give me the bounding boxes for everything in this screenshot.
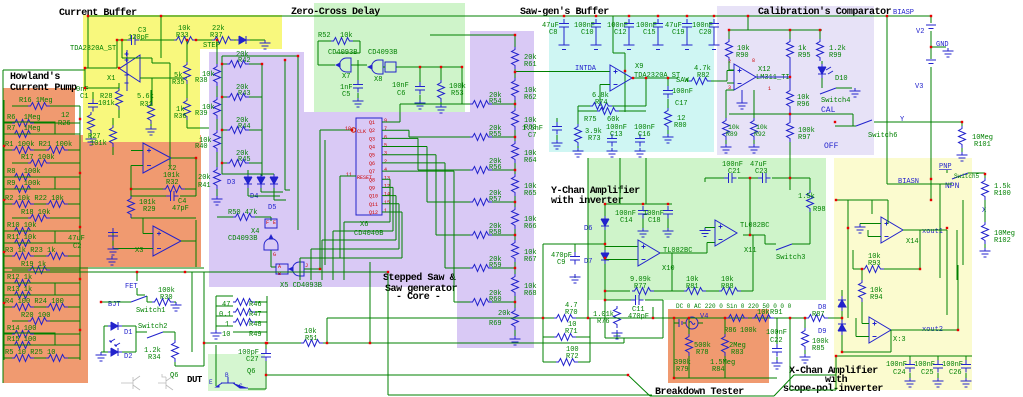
wire: comparator top rail	[729, 16, 822, 39]
svg-text:R35: R35	[172, 79, 185, 87]
capacitor C14	[638, 206, 648, 219]
svg-text:Q8: Q8	[369, 177, 375, 183]
svg-text:100nF: 100nF	[672, 88, 693, 96]
wire: GND stub	[931, 46, 946, 48]
ground: R73	[573, 148, 584, 157]
ground: X12	[737, 100, 748, 109]
wire: X14 nets	[836, 184, 963, 318]
svg-text:D10: D10	[835, 75, 848, 83]
svg-text:CD4093B: CD4093B	[328, 49, 357, 57]
svg-text:Stepped Saw &: Stepped Saw &	[383, 272, 456, 284]
svg-text:X8: X8	[374, 76, 382, 84]
ground: R89/R92	[721, 144, 732, 153]
svg-text:R55: R55	[489, 131, 502, 139]
svg-text:Current Buffer: Current Buffer	[59, 7, 137, 19]
svg-text:Q6: Q6	[170, 372, 178, 380]
capacitor C8	[559, 19, 569, 32]
svg-text:X14: X14	[906, 238, 919, 246]
resistor R30	[152, 299, 174, 306]
svg-text:101k: 101k	[90, 140, 107, 148]
resistor R50	[233, 214, 255, 221]
svg-text:R73: R73	[588, 135, 601, 143]
svg-text:LM311_TI: LM311_TI	[756, 74, 790, 82]
svg-text:10nF: 10nF	[392, 82, 409, 90]
wire: X6 Q8 feedback loop	[344, 179, 390, 280]
svg-text:C22: C22	[770, 337, 783, 345]
wire: Q6 emitter/collector nets	[216, 343, 628, 389]
resistor R101	[959, 126, 966, 148]
wire: R87 line	[828, 317, 842, 319]
svg-text:2: 2	[384, 159, 387, 165]
svg-text:R40: R40	[195, 143, 208, 151]
svg-text:TL082BC: TL082BC	[663, 247, 692, 255]
wire: R52 to X7	[318, 41, 360, 65]
resistor R40	[214, 130, 221, 152]
svg-text:4: 4	[384, 167, 387, 173]
wire: X4 out to X5	[271, 250, 276, 267]
svg-text:R88: R88	[721, 283, 734, 291]
diode D8	[838, 296, 846, 311]
wire: X10 output	[605, 243, 715, 292]
wire: X12 blue leads	[742, 61, 790, 120]
svg-text:R85: R85	[812, 345, 825, 353]
svg-text:1: 1	[768, 86, 771, 92]
LED D10	[818, 64, 826, 78]
wire: right BIASN vertical	[887, 16, 931, 184]
wire: R94	[861, 269, 863, 322]
wire: V4 loop	[576, 318, 806, 378]
svg-text:R72: R72	[566, 353, 579, 361]
op-amp X9	[610, 65, 632, 91]
op-amp X11 TL082BC	[715, 220, 737, 246]
diode D3	[244, 174, 252, 188]
svg-text:C6: C6	[397, 90, 405, 98]
svg-text:R4 100 R24 100: R4 100 R24 100	[5, 298, 64, 306]
diode on STEP line	[236, 36, 250, 44]
capacitor C3	[127, 35, 140, 45]
svg-text:13: 13	[384, 175, 390, 181]
svg-text:X:3: X:3	[893, 336, 906, 344]
capacitor C24	[905, 360, 915, 373]
resistor R64	[512, 141, 519, 163]
svg-text:100k: 100k	[740, 327, 757, 335]
svg-text:PNP: PNP	[939, 163, 952, 171]
wire: C3/R33/R37 feedback line	[117, 39, 265, 41]
svg-text:Switch2: Switch2	[138, 323, 167, 331]
resistor R26	[88, 112, 95, 134]
wire: R76/C11 box	[605, 291, 663, 338]
svg-text:DC 0 AC 220 0 Sin 0 220 50 0 0: DC 0 AC 220 0 Sin 0 220 50 0 0 0	[676, 303, 792, 310]
svg-text:Q10: Q10	[369, 194, 378, 200]
svg-text:R65: R65	[524, 190, 537, 198]
IC X6 CD4040B	[356, 118, 382, 215]
ground: R26	[86, 136, 97, 145]
wire: X1 feedback and input wires	[85, 16, 187, 166]
capacitor C23	[758, 173, 771, 183]
ground: C6	[415, 100, 426, 109]
op-amp X14	[881, 217, 903, 243]
svg-text:R58: R58	[489, 229, 502, 237]
wire: switch5 net	[931, 170, 985, 278]
resistor R78	[686, 334, 693, 356]
resistor R27	[110, 125, 117, 147]
svg-text:scope-pol-inverter: scope-pol-inverter	[783, 383, 883, 395]
wire: xchan bottom rail	[836, 356, 972, 390]
svg-text:47uF: 47uF	[68, 235, 85, 243]
svg-text:BIASN: BIASN	[898, 178, 919, 186]
svg-text:C25: C25	[921, 369, 934, 377]
ground: STEP line	[260, 40, 271, 49]
resistor R63	[512, 108, 519, 130]
svg-text:10k: 10k	[757, 309, 770, 317]
capacitor C21	[724, 173, 737, 183]
resistor R39	[214, 97, 221, 119]
svg-text:C24: C24	[893, 369, 906, 377]
resistor R62	[512, 78, 519, 100]
svg-text:X7: X7	[342, 73, 350, 81]
resistor R82	[689, 78, 711, 85]
svg-text:xout1: xout1	[922, 228, 943, 236]
svg-text:100nF: 100nF	[914, 361, 935, 369]
gate X4 CD4093B	[265, 219, 277, 228]
svg-text:R90: R90	[736, 52, 749, 60]
svg-text:C15: C15	[643, 29, 656, 37]
capacitor C13	[607, 134, 617, 147]
svg-text:C8: C8	[549, 29, 557, 37]
ground: R102	[980, 248, 991, 257]
svg-text:C16: C16	[638, 131, 651, 139]
capacitor C18	[663, 206, 673, 219]
svg-text:C2: C2	[73, 243, 81, 251]
wire: top supply bus	[88, 16, 931, 68]
svg-text:100nF: 100nF	[942, 361, 963, 369]
wire: breakdown net	[674, 318, 777, 378]
capacitor C6	[415, 82, 425, 95]
wire: X6 Q3 to ladder row	[382, 138, 462, 170]
svg-text:R20 100: R20 100	[21, 312, 50, 320]
resistor R61	[512, 47, 519, 69]
op-amp X10 TL082BC	[638, 240, 660, 266]
ground: C9	[570, 274, 581, 283]
svg-text:10k: 10k	[728, 124, 740, 131]
svg-text:R98: R98	[813, 206, 826, 214]
ground: GND	[943, 48, 954, 57]
resistor R73	[575, 124, 582, 146]
svg-text:R100: R100	[994, 190, 1011, 198]
svg-text:R91: R91	[770, 309, 783, 317]
ground: X14 input	[855, 224, 866, 233]
svg-text:10: 10	[222, 331, 230, 339]
svg-text:C13: C13	[610, 131, 623, 139]
resistor R81	[684, 288, 706, 295]
svg-text:R60: R60	[489, 296, 502, 304]
svg-text:Q9: Q9	[369, 185, 375, 191]
resistor R51	[301, 340, 323, 347]
capacitor C15	[653, 19, 663, 32]
svg-text:20k: 20k	[498, 310, 511, 318]
ground: R31	[146, 126, 157, 135]
svg-text:R93: R93	[868, 260, 881, 268]
diode D9	[838, 320, 846, 335]
resistor R88	[719, 288, 741, 295]
svg-text:V4: V4	[700, 313, 708, 321]
svg-text:100nF: 100nF	[886, 361, 907, 369]
svg-text:C12: C12	[614, 29, 627, 37]
svg-text:R94: R94	[870, 294, 883, 302]
svg-text:C20: C20	[699, 29, 712, 37]
ghost transistor outlines	[121, 374, 173, 390]
resistor R102	[982, 222, 989, 244]
capacitor C26	[961, 360, 971, 373]
wire: FET stub	[137, 272, 145, 295]
svg-text:C9: C9	[557, 259, 565, 267]
resistor R69	[512, 308, 519, 330]
svg-text:0.1: 0.1	[219, 311, 232, 319]
wire: X6 reset input	[340, 176, 356, 258]
wire: R51 line and long nets	[204, 262, 624, 343]
svg-text:Switch6: Switch6	[868, 132, 897, 140]
svg-text:R74: R74	[595, 99, 608, 107]
resistor R85	[802, 328, 809, 350]
svg-text:R71: R71	[565, 328, 578, 336]
op-amp X13	[869, 317, 891, 343]
switch Switch1	[131, 296, 147, 302]
svg-text:R26: R26	[58, 120, 71, 128]
gate X5 CD4093B	[276, 264, 288, 274]
svg-text:R51: R51	[305, 335, 318, 343]
wire: diode row	[222, 163, 286, 200]
ground: D2	[96, 352, 107, 361]
svg-text:C18: C18	[648, 217, 661, 225]
svg-text:D5: D5	[268, 204, 276, 212]
svg-text:X5 CD4093B: X5 CD4093B	[280, 282, 322, 290]
wire: mid horizontal runs	[652, 307, 654, 318]
resistor R89	[723, 118, 730, 140]
diode D7	[601, 250, 609, 264]
diode D5	[270, 174, 278, 188]
svg-text:R62: R62	[524, 94, 537, 102]
resistor R100	[982, 178, 989, 200]
svg-text:47pF: 47pF	[172, 205, 189, 213]
capacitor C5	[353, 80, 363, 93]
wire: C14/C18 rail	[588, 158, 672, 318]
resistor R28	[116, 88, 123, 110]
svg-text:R57: R57	[489, 196, 502, 204]
capacitor C22	[772, 344, 782, 357]
svg-text:5: 5	[384, 143, 387, 149]
resistor R94	[859, 280, 866, 302]
svg-text:14: 14	[384, 192, 390, 198]
svg-text:R95: R95	[798, 52, 811, 60]
svg-text:R101: R101	[974, 141, 991, 149]
svg-text:R50 47k: R50 47k	[228, 209, 257, 217]
svg-text:OFF: OFF	[824, 142, 839, 151]
wire: BJT line	[101, 296, 152, 302]
svg-text:TDA2320A_ST: TDA2320A_ST	[70, 45, 116, 53]
svg-text:Switch1: Switch1	[136, 307, 165, 315]
wire: X6 Q2 to ladder row	[382, 130, 462, 137]
wire: R93	[853, 250, 920, 269]
capacitor C4	[166, 191, 179, 201]
resistor R66	[512, 207, 519, 229]
svg-text:X9: X9	[635, 63, 643, 71]
block background: Saw-gen buffer (cyan)	[549, 17, 714, 152]
ground: C2	[108, 246, 119, 255]
svg-text:Switch3: Switch3	[776, 254, 805, 262]
svg-text:R34: R34	[148, 354, 161, 362]
svg-text:- Core -: - Core -	[396, 292, 440, 303]
wire: X6 Q4 to ladder row	[382, 147, 462, 203]
wire: D8/D9 column	[842, 290, 869, 352]
block background: Breakdown tester (orange)	[668, 309, 769, 383]
svg-text:R18 10k: R18 10k	[21, 209, 50, 217]
svg-text:C7: C7	[528, 132, 536, 140]
ground: R30	[171, 302, 182, 311]
svg-text:R102: R102	[994, 237, 1011, 245]
svg-text:D3: D3	[227, 179, 235, 187]
resistor R32	[163, 186, 185, 193]
gate X8 CD4093B	[367, 60, 383, 74]
svg-text:Q3: Q3	[369, 136, 375, 142]
svg-text:Q5: Q5	[369, 153, 375, 159]
svg-text:Q4: Q4	[369, 145, 375, 151]
svg-text:R82: R82	[697, 72, 710, 80]
capacitor C2	[108, 228, 118, 241]
svg-text:120pF: 120pF	[128, 34, 149, 42]
capacitor C9	[570, 252, 580, 265]
wire: X3 loops	[113, 218, 196, 267]
resistor R68	[512, 274, 519, 296]
svg-text:R81: R81	[686, 283, 699, 291]
svg-text:C27: C27	[246, 356, 259, 364]
svg-text:CLK: CLK	[357, 129, 366, 135]
svg-text:DUT: DUT	[187, 375, 203, 385]
resistor R91	[752, 315, 774, 322]
resistor R33	[174, 37, 196, 44]
svg-text:J: J	[305, 263, 308, 269]
svg-text:C21: C21	[728, 168, 741, 176]
wire: Howland block outline	[3, 70, 85, 383]
svg-text:7: 7	[384, 126, 387, 132]
wire: X6 Q12 feedback loop	[300, 212, 402, 280]
svg-text:Breakdown Tester: Breakdown Tester	[655, 386, 744, 397]
resistor R67	[512, 240, 519, 262]
svg-text:R83: R83	[731, 349, 744, 357]
svg-text:CD4093B: CD4093B	[368, 49, 397, 57]
svg-text:R53: R53	[451, 90, 464, 98]
resistor R37	[212, 37, 234, 44]
wire: ladder junction stubs	[514, 100, 516, 308]
ground: R80	[663, 134, 674, 143]
wire: R74/R75 net	[578, 78, 646, 124]
svg-text:C23: C23	[755, 168, 768, 176]
wire: X12 connections	[727, 61, 734, 83]
diode D4	[257, 174, 265, 188]
resistor R97	[787, 120, 794, 142]
svg-text:Q6: Q6	[369, 161, 375, 167]
svg-text:Q1: Q1	[369, 120, 375, 126]
resistor R76	[614, 306, 621, 328]
svg-text:X1: X1	[107, 75, 115, 83]
wire: D1 arrows	[110, 339, 120, 346]
wire: banner outline	[628, 375, 836, 396]
resistor R65	[512, 174, 519, 196]
battery V2	[926, 25, 936, 29]
switch Switch6	[856, 120, 872, 126]
svg-text:R30: R30	[160, 294, 173, 302]
svg-text:TDA2320A_ST: TDA2320A_ST	[634, 72, 680, 80]
wire: X13 nets	[856, 265, 958, 352]
capacitor C20	[709, 19, 719, 32]
capacitor C17	[663, 86, 673, 99]
svg-text:47: 47	[222, 301, 230, 309]
wire: X7-X8 and output net	[351, 60, 470, 104]
svg-text:Current Pump: Current Pump	[10, 83, 77, 94]
switch Switch3	[776, 244, 792, 250]
svg-text:1: 1	[384, 208, 387, 214]
svg-text:R79: R79	[676, 366, 689, 374]
wire: C21/C23 rail	[705, 178, 810, 190]
svg-text:C19: C19	[672, 29, 685, 37]
svg-text:R61: R61	[524, 61, 537, 69]
svg-text:NPN: NPN	[945, 182, 960, 191]
ground: R69	[510, 336, 521, 345]
resistor R86	[726, 315, 748, 322]
wire: V2/V3 stack vertical	[930, 16, 932, 184]
block background: Y-Chan amplifier (green)	[588, 158, 826, 300]
resistor R70	[554, 315, 576, 322]
svg-text:R97: R97	[798, 134, 811, 142]
svg-text:C1: C1	[80, 93, 88, 101]
svg-text:BIASP: BIASP	[893, 9, 914, 17]
svg-text:R3 1k R23 1k: R3 1k R23 1k	[5, 247, 55, 255]
resistor R77	[632, 288, 654, 295]
op-amp X2	[143, 143, 171, 173]
resistor R92	[751, 118, 758, 140]
resistor R38	[214, 64, 221, 86]
wire: X6 Q9 feedback loop	[333, 187, 393, 280]
resistor R99	[817, 39, 824, 61]
resistor R87	[806, 315, 828, 322]
wire: INTDA input	[515, 71, 610, 73]
capacitor C16	[635, 134, 645, 147]
block background: Stepped Saw core (purple)	[209, 52, 304, 112]
svg-text:C26: C26	[949, 369, 962, 377]
resistor R72	[556, 359, 578, 366]
svg-text:Switch5: Switch5	[954, 173, 980, 180]
comparator X12 LM311	[734, 64, 756, 90]
wire: R46-R49 block	[216, 296, 267, 341]
block background: Howland Current Pump (orange)	[3, 88, 75, 135]
wire: X5 output to CLK riser	[304, 130, 352, 269]
svg-text:D2: D2	[124, 353, 132, 361]
wire: X6 Q11 feedback loop	[311, 204, 399, 280]
svg-text:R56: R56	[489, 164, 502, 172]
svg-text:1.5k: 1.5k	[798, 193, 815, 201]
svg-text:60k: 60k	[607, 116, 620, 124]
wire: bottom distribution buses	[3, 268, 652, 395]
wire: X9 output / SAW net	[600, 78, 678, 106]
resistor R75	[597, 108, 619, 115]
resistor R53	[438, 80, 445, 102]
svg-text:3: 3	[384, 151, 387, 157]
wire: ladder right bus	[79, 106, 81, 360]
svg-text:Howland's: Howland's	[10, 71, 60, 83]
wire: R42 ladder buses	[222, 56, 298, 230]
switch Switch4	[820, 88, 836, 94]
wire: Y net	[835, 122, 962, 126]
svg-text:R38: R38	[195, 77, 208, 85]
